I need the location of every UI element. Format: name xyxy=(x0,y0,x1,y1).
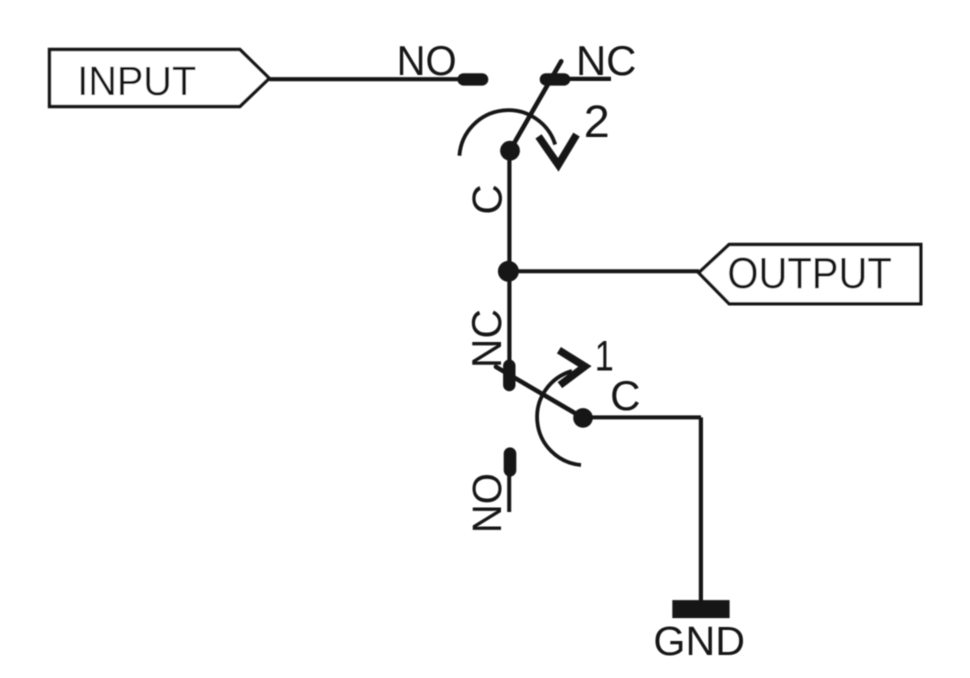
arrowhead chevron (switch 2) xyxy=(539,135,577,165)
contact NC (switch 2) xyxy=(546,73,564,85)
contact NC (switch 1) xyxy=(503,366,515,385)
contact NO (switch 2) xyxy=(464,73,483,85)
wire junction to OUTPUT xyxy=(508,269,699,273)
svg-text:NO: NO xyxy=(464,473,510,533)
junction node xyxy=(498,261,519,282)
wire switch 1 C to corner xyxy=(583,415,701,419)
rotation arc (switch 2) xyxy=(459,110,555,156)
svg-text:NC: NC xyxy=(463,309,510,368)
svg-text:NO: NO xyxy=(397,37,457,84)
rotation arc (switch 1) xyxy=(537,371,581,465)
pivot dot C (switch 2) xyxy=(500,141,520,161)
wire NC stub (switch 2) xyxy=(564,77,611,81)
svg-text:NC: NC xyxy=(576,37,637,84)
wire INPUT to NO contact of switch 2 xyxy=(269,77,465,81)
svg-text:GND: GND xyxy=(653,618,745,664)
wire corner down to GND xyxy=(699,417,703,608)
svg-text:C: C xyxy=(610,372,640,419)
ground bar xyxy=(672,600,729,618)
OUTPUT flag xyxy=(699,245,921,304)
switch arm S2 (C to NC) xyxy=(510,61,561,150)
pivot dot C (switch 1) xyxy=(573,408,593,428)
wire NO stub (switch 1) xyxy=(507,470,511,512)
arrowhead chevron (switch 1) xyxy=(559,350,585,385)
svg-text:INPUT: INPUT xyxy=(77,58,196,104)
switch arm S1 (C to NC) xyxy=(496,367,583,418)
svg-text:OUTPUT: OUTPUT xyxy=(727,249,892,298)
svg-text:2: 2 xyxy=(584,96,610,147)
wire C vertical (switch 2 pivot to junction to NC1) xyxy=(507,150,511,364)
svg-text:C: C xyxy=(463,184,510,214)
INPUT flag xyxy=(50,50,270,107)
contact NO (switch 1) xyxy=(504,454,517,471)
